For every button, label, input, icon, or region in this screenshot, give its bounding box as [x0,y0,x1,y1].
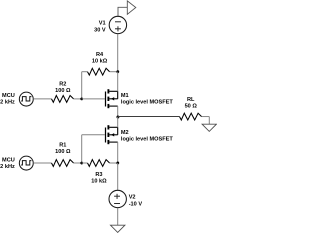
svg-text:V1: V1 [99,21,106,27]
node: mid node (M1 source / M2 drain / RL) [116,116,119,119]
wire V2 to ground [117,208,119,225]
svg-text:2 kHz: 2 kHz [0,100,15,106]
node: gate M1 / R4 junction [80,98,83,101]
port flag (top output arrow) [118,1,136,16]
svg-text:logic level MOSFET: logic level MOSFET [121,99,173,105]
transistor M1 (logic level MOSFET) [106,72,174,117]
ground (RL) [202,124,216,131]
wire MCU1 to R2 [33,98,51,100]
node: rail / R4 junction [116,70,119,73]
svg-text:10 kΩ: 10 kΩ [92,59,108,65]
resistor R3 [82,160,118,185]
svg-text:V2: V2 [129,195,136,201]
wire junction riser [81,135,83,163]
svg-text:50 Ω: 50 Ω [185,104,198,110]
wire V1 to rail [117,34,119,72]
ground (V2) [111,225,125,232]
svg-text:R4: R4 [96,52,104,58]
svg-text:100 Ω: 100 Ω [55,88,71,94]
svg-text:30 V: 30 V [94,28,106,34]
resistor RL [180,97,210,124]
MCU source 2 (square-wave source) [0,156,33,170]
node: gate M2 / R1 / R3 junction [80,162,83,165]
svg-text:R1: R1 [59,143,66,149]
svg-text:M2: M2 [121,130,129,136]
svg-text:2 kHz: 2 kHz [0,164,15,170]
svg-text:logic level MOSFET: logic level MOSFET [121,136,173,142]
wire M2 gate to junction [82,134,105,136]
svg-text:R3: R3 [95,172,102,178]
svg-text:-10 V: -10 V [129,202,143,208]
svg-text:RL: RL [187,97,195,103]
svg-text:MCU: MCU [2,158,15,164]
transistor M2 (logic level MOSFET) [106,117,174,163]
wire junction to M1 gate [82,98,105,100]
svg-text:100 Ω: 100 Ω [55,149,71,155]
svg-text:10 kΩ: 10 kΩ [91,179,107,185]
wire mid node to RL [118,116,180,118]
MCU source 1 (square-wave source) [0,92,33,106]
voltage source V1 [94,16,127,33]
svg-text:M1: M1 [121,93,129,99]
wire rail to V2 [117,163,119,190]
voltage source V2 [109,190,142,207]
node: rail / R3 junction [116,162,119,165]
svg-text:MCU: MCU [2,93,15,99]
resistor R1 [52,143,82,167]
resistor R2 [52,82,82,103]
resistor R4 [82,52,118,99]
svg-text:R2: R2 [59,82,66,88]
wire MCU2 to R1 [33,162,51,164]
